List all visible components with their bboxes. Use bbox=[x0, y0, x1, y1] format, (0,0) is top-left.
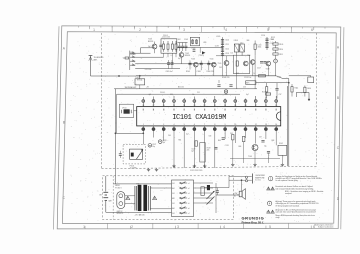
capacitor C117 bbox=[260, 61, 263, 63]
svg-text:3k3: 3k3 bbox=[271, 39, 274, 41]
svg-text:R66: R66 bbox=[239, 146, 242, 148]
svg-text:8: 8 bbox=[214, 124, 215, 126]
svg-text:6: 6 bbox=[194, 124, 195, 126]
capacitor ladder C110-C113 bbox=[222, 37, 224, 56]
wire transformer out bbox=[150, 187, 171, 189]
svg-text:21: 21 bbox=[214, 105, 216, 107]
svg-text:10: 10 bbox=[234, 124, 236, 126]
ground marks at shield bbox=[148, 168, 150, 169]
AM oscillator coil L105 box bbox=[190, 37, 199, 46]
svg-text:09 Umsprüngsbereich standard.: 09 Umsprüngsbereich standard. bbox=[276, 204, 301, 207]
wire pin drops bottom bbox=[153, 131, 155, 138]
svg-text:C53: C53 bbox=[243, 87, 246, 89]
wire fan 1 bbox=[135, 52, 150, 54]
earphone jack BU101 bbox=[245, 176, 247, 178]
pin B2 bbox=[153, 126, 155, 128]
speaker LS1 bbox=[239, 191, 242, 197]
coil L104 bbox=[254, 44, 256, 49]
svg-text:4: 4 bbox=[223, 225, 225, 229]
pin T4 bbox=[173, 96, 175, 107]
switch S1 arrows bbox=[207, 191, 215, 199]
capacitor C118 bbox=[263, 61, 266, 63]
svg-text:5: 5 bbox=[267, 28, 269, 32]
wire switch to speaker bbox=[216, 194, 239, 196]
svg-text:C113: C113 bbox=[225, 53, 229, 55]
transistor pair capsule NFM1 bbox=[117, 192, 125, 209]
svg-text:0,1: 0,1 bbox=[171, 55, 173, 57]
svg-text:C105 4n7: C105 4n7 bbox=[166, 71, 173, 73]
wire meter loop bbox=[296, 92, 309, 94]
pot box P102 bbox=[201, 187, 204, 196]
svg-text:C34: C34 bbox=[225, 94, 228, 96]
svg-text:C67: C67 bbox=[259, 137, 262, 139]
capacitor C124 electrolytic bbox=[224, 90, 227, 93]
ground symbols lower right bbox=[232, 163, 234, 164]
svg-text:25: 25 bbox=[173, 105, 175, 107]
ground symbols mid bbox=[173, 165, 175, 166]
pin B14 bbox=[275, 126, 277, 128]
wire far right stack bbox=[275, 41, 277, 43]
pin B5 bbox=[183, 126, 185, 128]
svg-text:170 / AB 030: 170 / AB 030 bbox=[135, 213, 145, 216]
svg-text:22: 22 bbox=[204, 105, 206, 107]
pin B6 bbox=[193, 126, 195, 128]
capacitor C122 bbox=[217, 84, 220, 86]
diode D103 blob bbox=[202, 51, 205, 54]
IF transformer FI101 body bbox=[130, 149, 143, 159]
svg-text:L103: L103 bbox=[216, 36, 220, 38]
coil L102 bbox=[167, 41, 169, 44]
svg-text:C108: C108 bbox=[197, 71, 201, 73]
svg-text:2p2: 2p2 bbox=[148, 46, 151, 48]
wire T101 bbox=[154, 49, 156, 53]
output transformer TR1 winding left bbox=[134, 186, 136, 211]
svg-text:R105: R105 bbox=[186, 71, 190, 73]
note 3 circled number bbox=[267, 201, 271, 205]
svg-text:R61: R61 bbox=[179, 140, 182, 142]
svg-text:C117: C117 bbox=[257, 68, 261, 70]
transistor T107 bbox=[251, 60, 256, 65]
svg-text:15: 15 bbox=[275, 105, 277, 107]
wire fan 4 bbox=[135, 68, 180, 70]
pin T2 bbox=[153, 97, 155, 107]
svg-text:26: 26 bbox=[163, 105, 165, 107]
warning triangle audio 1 bbox=[126, 196, 130, 199]
svg-text:a6: a6 bbox=[188, 208, 190, 210]
svg-text:C111: C111 bbox=[225, 44, 229, 46]
svg-text:C31: C31 bbox=[170, 94, 173, 96]
svg-text:C129: C129 bbox=[191, 148, 195, 150]
capacitor C128 electrolytic bbox=[158, 140, 162, 144]
pin T1 bbox=[142, 97, 144, 107]
resistor R101 bbox=[125, 57, 129, 59]
svg-text:a1: a1 bbox=[188, 183, 190, 185]
transistor T105 bbox=[224, 61, 229, 66]
svg-text:(TP101): (TP101) bbox=[199, 55, 205, 57]
switch contact 1 bbox=[180, 182, 187, 184]
svg-text:R116: R116 bbox=[307, 88, 311, 90]
svg-text:1: 1 bbox=[93, 28, 95, 32]
svg-text:CF101: CF101 bbox=[122, 107, 127, 109]
capacitor C134 bbox=[261, 140, 264, 142]
svg-text:12: 12 bbox=[255, 124, 257, 126]
wire L104 bbox=[254, 41, 256, 45]
resistor R122 bbox=[243, 136, 245, 141]
capacitor C130 bbox=[214, 147, 217, 149]
wire row2 bbox=[226, 65, 228, 75]
resistor R116 bbox=[304, 87, 306, 92]
wire mixer verticals bbox=[195, 67, 197, 76]
wire pin1 route left bbox=[142, 131, 144, 134]
svg-text:C127: C127 bbox=[152, 144, 156, 146]
wire coil box drops bbox=[163, 53, 165, 57]
svg-text:24: 24 bbox=[183, 105, 185, 107]
wire right bus bbox=[228, 176, 230, 187]
board boundary dashed bottom bbox=[102, 166, 317, 168]
svg-text:C51: C51 bbox=[197, 92, 200, 94]
svg-text:4: 4 bbox=[174, 124, 175, 126]
svg-text:R64: R64 bbox=[218, 140, 221, 142]
wire lower cluster bbox=[232, 140, 234, 163]
pin B3 bbox=[163, 126, 165, 128]
IF transformer FI101 shield bbox=[123, 144, 145, 164]
resistor R110 bbox=[273, 48, 278, 50]
switch contact 7 bbox=[180, 212, 187, 214]
svg-text:S101: S101 bbox=[130, 52, 134, 54]
svg-text:18: 18 bbox=[245, 105, 247, 107]
svg-text:4µ7: 4µ7 bbox=[163, 142, 166, 144]
transistor T103 bbox=[194, 62, 199, 67]
pin B12 bbox=[255, 126, 257, 128]
capacitor C123 bbox=[229, 84, 232, 86]
svg-text:a7: a7 bbox=[188, 213, 190, 215]
ceramic filter FI102 bbox=[234, 44, 239, 52]
svg-text:R68: R68 bbox=[272, 140, 275, 142]
output transformer TR1 winding right bbox=[148, 186, 150, 211]
transistor T109 bbox=[252, 145, 258, 151]
pin B11 bbox=[245, 126, 247, 128]
wire AM row bbox=[216, 55, 233, 57]
svg-text:rüngt: rüngt bbox=[276, 216, 280, 219]
resistor R113 on bus bbox=[259, 75, 266, 77]
pin T9 bbox=[224, 99, 226, 107]
svg-text:4µ7: 4µ7 bbox=[186, 134, 189, 136]
wire antenna feed across bbox=[91, 75, 137, 77]
driver box ST1 bbox=[135, 79, 145, 85]
svg-text:T109: T109 bbox=[248, 156, 252, 158]
svg-text:2: 2 bbox=[131, 225, 133, 229]
svg-text:1: 1 bbox=[143, 124, 144, 126]
svg-text:C110: C110 bbox=[225, 40, 229, 42]
svg-text:a3: a3 bbox=[188, 193, 190, 195]
svg-text:5: 5 bbox=[184, 124, 185, 126]
svg-text:C103: C103 bbox=[184, 39, 188, 41]
wire AM osc long bbox=[177, 46, 223, 48]
svg-text:teile ersetzen! Andernfalls Ge: teile ersetzen! Andernfalls Gewährleistu… bbox=[276, 187, 315, 190]
svg-text:4µ7: 4µ7 bbox=[149, 94, 152, 96]
wire filter bus drops bbox=[222, 57, 224, 76]
svg-text:9: 9 bbox=[225, 124, 226, 126]
pin B4 bbox=[173, 126, 175, 128]
svg-text:R108 220: R108 220 bbox=[222, 77, 229, 79]
svg-text:TASTENAGGR.: TASTENAGGR. bbox=[125, 86, 138, 89]
resistor R117 bbox=[265, 93, 270, 95]
capacitor C120 bbox=[275, 88, 278, 90]
svg-text:R117: R117 bbox=[262, 92, 266, 94]
op-amp U1 IC101 CXA1019M body bbox=[137, 107, 281, 126]
svg-text:+3V: +3V bbox=[146, 87, 149, 89]
svg-text:13: 13 bbox=[265, 124, 267, 126]
telescopic antenna AT1 bbox=[90, 56, 92, 63]
svg-text:455k: 455k bbox=[258, 47, 262, 49]
wire corner to T101 bbox=[141, 47, 153, 49]
svg-text:IC101 CXA1019M: IC101 CXA1019M bbox=[172, 114, 226, 122]
wire fan 3 bbox=[135, 63, 216, 65]
pin T3 bbox=[163, 99, 165, 107]
pin T13 bbox=[265, 97, 267, 107]
varicap module D102 bbox=[278, 145, 287, 155]
svg-text:R115: R115 bbox=[295, 87, 299, 89]
wire main AF bus bbox=[136, 75, 276, 77]
battery BAT1 3V bbox=[105, 176, 107, 192]
svg-text:20: 20 bbox=[224, 105, 226, 107]
svg-text:Prima-Boy 55 L: Prima-Boy 55 L bbox=[242, 220, 265, 224]
svg-text:C116: C116 bbox=[261, 35, 265, 37]
pin T11 bbox=[245, 99, 247, 107]
svg-text:C119 10n: C119 10n bbox=[244, 77, 251, 79]
wire TP link bbox=[134, 110, 137, 112]
supply bus wire 2 bbox=[117, 93, 240, 95]
wire top bus audio bbox=[113, 183, 171, 185]
svg-text:16: 16 bbox=[265, 105, 267, 107]
svg-text:C131: C131 bbox=[225, 145, 229, 147]
svg-text:D102: D102 bbox=[279, 143, 283, 145]
svg-text:5: 5 bbox=[269, 225, 271, 229]
pin T7 bbox=[204, 99, 206, 107]
svg-text:4: 4 bbox=[225, 28, 227, 32]
svg-text:R52 100: R52 100 bbox=[178, 87, 184, 89]
svg-text:C112: C112 bbox=[225, 48, 229, 50]
svg-text:10µ: 10µ bbox=[264, 146, 267, 148]
svg-text:a2: a2 bbox=[188, 188, 190, 190]
svg-text:4µ7: 4µ7 bbox=[246, 94, 249, 96]
svg-text:9T 030 S: 9T 030 S bbox=[115, 187, 121, 189]
wire AFC bbox=[256, 82, 289, 84]
wire antenna feed down bbox=[90, 62, 92, 76]
capacitor C136 electrolytic black bbox=[207, 185, 210, 190]
capacitor C137 bbox=[216, 190, 219, 192]
svg-text:T103: T103 bbox=[191, 58, 195, 60]
svg-text:ST101: ST101 bbox=[137, 79, 142, 81]
wire top right link bbox=[289, 75, 311, 77]
transistor T104 bbox=[212, 62, 217, 67]
svg-text:14: 14 bbox=[275, 124, 277, 126]
wire capsule to transformer bbox=[125, 195, 135, 197]
switch contact 5 bbox=[180, 202, 187, 204]
switch contact 2 bbox=[180, 187, 187, 189]
tuning gang capacitor C104 bbox=[184, 45, 187, 47]
svg-text:4p7: 4p7 bbox=[178, 58, 181, 60]
svg-text:L106: L106 bbox=[203, 42, 207, 44]
wire meter vertical 2 bbox=[286, 86, 288, 166]
svg-text:1: 1 bbox=[83, 225, 85, 229]
svg-text:17R 306: 17R 306 bbox=[145, 69, 152, 71]
audio board partition dashed bbox=[112, 176, 114, 220]
svg-text:C132 C133 R120: C132 C133 R120 bbox=[190, 170, 202, 172]
svg-text:C63: C63 bbox=[209, 136, 212, 138]
switch contact 4 bbox=[180, 197, 187, 199]
diode D101 bbox=[274, 59, 278, 63]
AM mixer box bbox=[233, 55, 249, 73]
svg-text:U101: U101 bbox=[136, 77, 140, 79]
svg-text:Mauca BDB-trennende bonding-Vo: Mauca BDB-trennende bonding-Vorrichtun s… bbox=[276, 214, 315, 217]
svg-text:FI101: FI101 bbox=[234, 40, 238, 42]
wire osc bbox=[181, 51, 183, 53]
tuning gang capacitor C102 bbox=[178, 45, 181, 47]
coil L104 bbox=[175, 41, 177, 44]
board boundary dashed left bbox=[101, 33, 103, 169]
audio board dashed box bbox=[103, 176, 234, 220]
resistor R115 bbox=[291, 87, 293, 92]
svg-text:BF324: BF324 bbox=[148, 41, 153, 43]
wire bus jog bbox=[276, 76, 283, 79]
resistor R109 bbox=[273, 43, 278, 45]
pin T10 bbox=[234, 97, 236, 107]
capacitor C105 bbox=[167, 62, 170, 64]
svg-text:ansehen!: ansehen! bbox=[285, 193, 292, 195]
FM tuner coil pack L101 box bbox=[161, 39, 177, 53]
wire pin1 into FI101 bbox=[142, 133, 144, 144]
note 4 warning triangles bbox=[267, 210, 270, 213]
capacitor C131 bbox=[222, 137, 225, 139]
svg-text:a5: a5 bbox=[188, 203, 190, 205]
svg-text:2: 2 bbox=[139, 28, 141, 32]
ceramic filter FI103 bbox=[240, 44, 245, 52]
svg-text:3: 3 bbox=[177, 225, 179, 229]
svg-text:R110: R110 bbox=[279, 49, 283, 51]
transistor T106 bbox=[244, 61, 249, 66]
pin T12 bbox=[255, 96, 257, 107]
svg-text:3: 3 bbox=[183, 28, 185, 32]
svg-text:27: 27 bbox=[153, 105, 155, 107]
wire left bus vertical 1 bbox=[114, 89, 116, 184]
svg-text:für alle späteren Geräte gülti: für alle späteren Geräte gültig. bbox=[276, 179, 299, 182]
capacitor C109 bbox=[207, 62, 210, 64]
svg-text:C102: C102 bbox=[177, 39, 181, 41]
resistor R114 bbox=[266, 87, 268, 92]
AFC module box bbox=[246, 81, 256, 85]
transistor T102 FM osc bbox=[179, 53, 184, 58]
resistor R121 bbox=[232, 135, 234, 140]
svg-text:samt alte mite seiner Spezifik: samt alte mite seiner Spezifikationen be… bbox=[276, 211, 317, 214]
capacitor C127 electrolytic bbox=[148, 144, 152, 148]
coil L101 bbox=[163, 41, 165, 44]
svg-text:23: 23 bbox=[193, 105, 195, 107]
wire meter vertical bbox=[288, 79, 290, 166]
wire gang top bbox=[178, 42, 188, 44]
svg-text:6: 6 bbox=[311, 28, 313, 32]
svg-text:C37: C37 bbox=[279, 94, 282, 96]
svg-text:C50 0,1: C50 0,1 bbox=[160, 92, 165, 94]
wire jack feeds bbox=[229, 175, 245, 177]
svg-text:C36 L5: C36 L5 bbox=[163, 35, 168, 37]
svg-text:T105: T105 bbox=[218, 63, 222, 65]
wire bus drops bbox=[139, 85, 141, 89]
svg-text:ANT.: ANT. bbox=[94, 58, 99, 61]
svg-text:10µ: 10µ bbox=[152, 146, 155, 148]
transistor T108 bbox=[266, 61, 271, 66]
band switch S101 contacts bbox=[132, 52, 136, 54]
capacitor C135 bbox=[267, 151, 270, 153]
pin T14 bbox=[275, 96, 277, 107]
svg-text:4µ7: 4µ7 bbox=[191, 150, 194, 152]
svg-text:10n: 10n bbox=[231, 53, 234, 55]
board boundary dashed right bbox=[315, 33, 317, 166]
pin B8 bbox=[214, 126, 216, 128]
svg-text:C60: C60 bbox=[168, 135, 171, 137]
svg-text:7: 7 bbox=[204, 124, 205, 126]
svg-text:T108: T108 bbox=[266, 69, 270, 71]
tuning gang capacitor C103 bbox=[181, 45, 184, 47]
svg-text:T104: T104 bbox=[210, 58, 214, 60]
warning triangle audio 2 bbox=[153, 196, 157, 199]
svg-text:3: 3 bbox=[163, 124, 164, 126]
svg-text:+8,4V: +8,4V bbox=[215, 45, 219, 47]
resistor R118 bbox=[195, 141, 197, 146]
svg-text:19: 19 bbox=[234, 105, 236, 107]
output transformer TR1 core bbox=[138, 185, 142, 211]
resistor R107 bbox=[236, 61, 238, 66]
svg-text:SFE: SFE bbox=[247, 40, 250, 42]
svg-text:28: 28 bbox=[142, 105, 144, 107]
pin B13 bbox=[265, 126, 267, 128]
svg-text:10n: 10n bbox=[192, 94, 195, 96]
svg-text:10k: 10k bbox=[207, 150, 210, 152]
svg-text:11: 11 bbox=[245, 124, 247, 126]
svg-text:3,5 mm: 3,5 mm bbox=[255, 180, 261, 182]
volume pot box P101 bbox=[200, 143, 205, 162]
capacitor C126 bbox=[119, 153, 122, 155]
capacitor ladder C114-C116 bbox=[266, 37, 268, 50]
test point box TP101 bbox=[119, 104, 133, 117]
switch contact 3 bbox=[180, 192, 187, 194]
wire switch column left bbox=[129, 51, 131, 70]
wire audio out bbox=[204, 187, 229, 189]
wire bottom bus audio bbox=[106, 211, 172, 213]
svg-text:NFM1: NFM1 bbox=[115, 185, 120, 187]
wire filters bbox=[236, 52, 238, 58]
svg-text:R119: R119 bbox=[207, 148, 211, 150]
svg-text:Subject to alteration: Subject to alteration bbox=[318, 226, 333, 229]
wire to speaker bbox=[237, 194, 239, 196]
svg-text:R109: R109 bbox=[279, 44, 283, 46]
pin B1 bbox=[142, 126, 144, 128]
capacitor C121 electrolytic bbox=[308, 77, 314, 83]
supply bus wire 1 bbox=[114, 88, 257, 90]
svg-text:C43: C43 bbox=[219, 67, 222, 69]
note 1 circled number bbox=[268, 176, 272, 180]
svg-text:BF450: BF450 bbox=[185, 55, 190, 57]
pin T8 bbox=[214, 96, 216, 107]
svg-text:96700 10: 96700 10 bbox=[117, 213, 124, 215]
capacitor C107 bbox=[189, 62, 192, 64]
pin T6 bbox=[193, 97, 195, 107]
note 2 warning triangles bbox=[267, 187, 270, 190]
svg-text:10,7 MHz: 10,7 MHz bbox=[130, 168, 137, 170]
capacitor C101 bbox=[159, 44, 162, 46]
svg-text:17: 17 bbox=[255, 105, 257, 107]
svg-text:R106 220: R106 220 bbox=[207, 71, 214, 73]
